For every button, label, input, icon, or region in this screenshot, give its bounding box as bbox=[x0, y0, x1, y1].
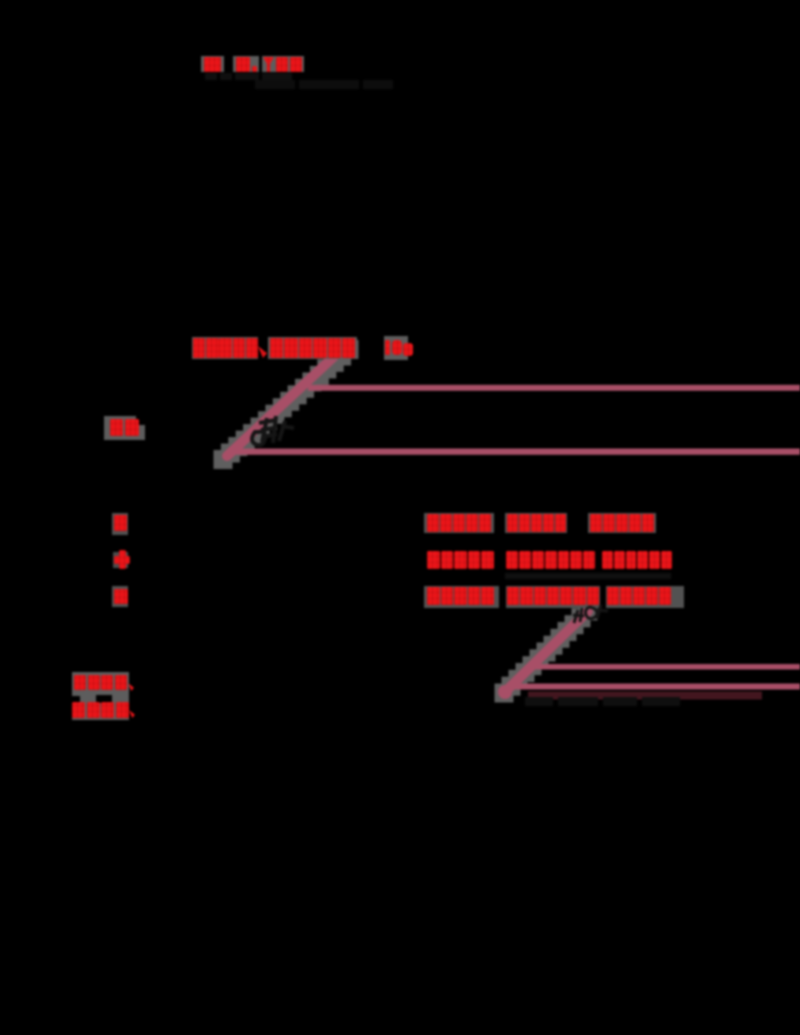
stair shadow of pen stroke 2 bbox=[495, 602, 598, 703]
red phrase C1 bbox=[427, 551, 494, 569]
pen line 4 (horizontal, lower of bottom pair) bbox=[507, 684, 800, 690]
highlight box A2 bbox=[268, 337, 357, 359]
highlight box C-left bbox=[113, 552, 128, 568]
pen stroke 2 (diagonal) bbox=[505, 611, 588, 692]
pen line 3 (horizontal, upper of bottom pair) bbox=[527, 664, 800, 670]
red phrase F (lower) bbox=[72, 702, 129, 718]
faint black text row 2 bbox=[255, 80, 393, 89]
red title char 2 with comma bbox=[236, 57, 257, 72]
highlight box B2 bbox=[505, 513, 567, 533]
highlight box B3 bbox=[588, 513, 656, 533]
highlight box A1 bbox=[192, 337, 258, 359]
highlight box D2 bbox=[506, 586, 600, 608]
red mark D-left bbox=[114, 589, 128, 604]
highlight box M (MQ) bbox=[104, 416, 136, 440]
red title char 1 bbox=[204, 57, 221, 72]
red phrase A2 bbox=[270, 338, 355, 358]
red phrase B2 bbox=[507, 514, 566, 532]
red comma after A1 bbox=[258, 346, 267, 358]
red phrase D1 bbox=[427, 587, 494, 605]
notch 2 in box E bbox=[96, 695, 112, 703]
pen line 2 (horizontal strike, lower) bbox=[235, 449, 800, 455]
highlight box B1 bbox=[424, 513, 494, 533]
highlight box B-left bbox=[112, 513, 128, 535]
red mark B-left bbox=[114, 515, 127, 531]
red phrase D2 bbox=[507, 587, 599, 605]
highlight box M extension bbox=[136, 425, 145, 440]
black ink scribble on stroke 2 bbox=[570, 600, 610, 628]
highlight box A3 bbox=[384, 336, 408, 360]
highlight box E (bottom-left block) bbox=[72, 672, 129, 720]
black ink scribble on stroke 1 bbox=[245, 410, 305, 456]
highlight box T3 (title) bbox=[262, 56, 304, 72]
red phrase D3 bbox=[607, 587, 671, 605]
dark red smear under line 4 bbox=[528, 692, 762, 700]
red phrase E (upper) bbox=[74, 675, 127, 690]
stair shadow of pen stroke 1 bbox=[214, 340, 359, 469]
highlight box T1 (title) bbox=[201, 56, 224, 72]
red phrase C3 bbox=[602, 551, 672, 569]
red mark C-left (cross shape) bbox=[119, 550, 126, 569]
highlight box T2 (title) bbox=[233, 56, 259, 72]
red title word 3 bbox=[263, 57, 302, 72]
red comma after F bbox=[129, 710, 135, 718]
red phrase C2 bbox=[506, 551, 595, 569]
notch 1 in box E bbox=[72, 696, 80, 703]
highlight box D1 bbox=[424, 586, 499, 608]
faint black text row between rows C and D bbox=[505, 573, 671, 579]
faint black text under title bbox=[205, 73, 292, 80]
red word M bbox=[110, 419, 139, 436]
pen line 1 (horizontal strike, upper) bbox=[308, 385, 800, 391]
faint black text row under bottom pen lines bbox=[525, 697, 680, 706]
red value 10% bbox=[385, 340, 390, 355]
red phrase B1 bbox=[427, 514, 491, 532]
highlight box D-left bbox=[112, 586, 128, 607]
red comma after E bbox=[128, 683, 134, 691]
red phrase A1 bbox=[193, 338, 258, 358]
red phrase B3 bbox=[590, 514, 654, 532]
pen stroke 1 (diagonal) bbox=[227, 350, 341, 456]
highlight box D3 bbox=[606, 586, 684, 608]
